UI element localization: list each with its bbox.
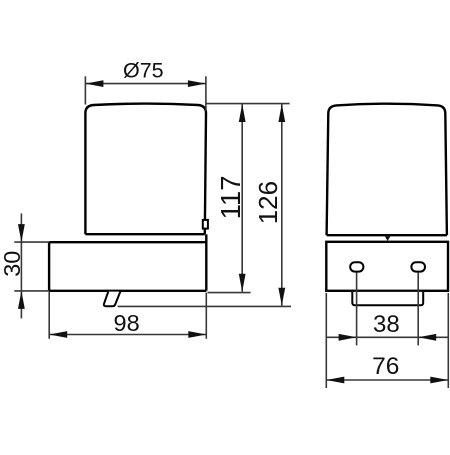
38 dimension line: [326, 336, 448, 338]
38 extension line left: [356, 272, 358, 345]
tumbler glass body (side view): [85, 104, 206, 235]
38 arrow left (points right): [339, 334, 357, 341]
117 arrow bottom: [239, 274, 246, 292]
117 arrow top: [239, 104, 246, 122]
screw hole right: [411, 262, 425, 271]
38 extension line right: [417, 272, 419, 345]
Ø75 dimension line: [85, 83, 205, 85]
117 dimension line: [241, 104, 243, 292]
screw hole left: [350, 262, 363, 271]
76 extension line right: [447, 293, 449, 388]
98 dimension line: [49, 334, 206, 336]
wall bracket housing (side view): [49, 234, 206, 290]
pump lever under bracket (side view): [104, 292, 120, 307]
30 arrow upper (points down): [18, 224, 25, 242]
svg-text:30: 30: [0, 251, 25, 277]
76 extension line left: [325, 293, 327, 388]
30 arrow lower (points up): [18, 291, 25, 309]
30 dimension line: [20, 213, 22, 318]
98 extension line left: [48, 292, 50, 339]
126 bottom extension line (lever tip): [118, 305, 291, 307]
svg-text:98: 98: [114, 310, 140, 336]
126 arrow bottom: [278, 288, 285, 306]
98 arrow left: [49, 331, 67, 338]
wall bracket housing (front view): [326, 242, 448, 291]
Ø75 extension line left: [84, 76, 86, 104]
svg-text:126: 126: [253, 181, 283, 224]
30 extension line top (bracket top): [14, 241, 49, 243]
98 extension line right: [205, 293, 207, 339]
svg-text:76: 76: [372, 353, 399, 380]
tumbler glass body (front view): [327, 104, 447, 236]
117 bottom extension line (bracket bottom): [208, 292, 251, 294]
svg-text:117: 117: [215, 175, 246, 219]
126 arrow top: [278, 104, 285, 122]
Ø75 extension line right: [205, 76, 207, 111]
top extension line (cup top): [207, 103, 290, 105]
mounting plate behind bracket (front view): [352, 292, 423, 305]
glass bottom rim line (front): [327, 234, 447, 236]
Ø75 arrow left: [85, 80, 103, 87]
76 arrow left: [326, 377, 344, 384]
svg-text:38: 38: [373, 311, 400, 338]
98 arrow right: [188, 331, 206, 338]
svg-text:Ø75: Ø75: [123, 59, 164, 83]
126 dimension line: [281, 104, 283, 306]
lever tip mark (front view, small triangle): [385, 236, 391, 241]
glass bottom rim line (side): [85, 233, 204, 235]
release button detail on glass right edge: [203, 220, 208, 229]
Ø75 arrow right: [188, 80, 206, 87]
76 arrow right: [430, 377, 448, 384]
76 dimension line: [326, 379, 448, 381]
30 extension line bottom (bracket bottom): [14, 290, 49, 292]
38 arrow right (points left): [418, 334, 436, 341]
